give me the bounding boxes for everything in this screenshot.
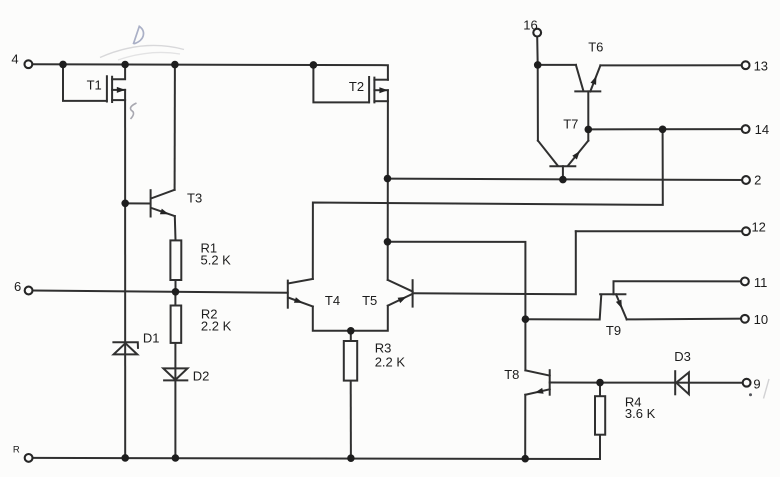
wire node 16 to T6 collector diagonal [538, 64, 576, 66]
terminal pin 6 [25, 287, 33, 295]
transistor T5 collector diagonal [388, 280, 413, 292]
diode D1 (zener) anode triangle pointing up [114, 343, 138, 354]
wire T6 base down to pin 14 node [587, 91, 589, 129]
node T8 base / R4 / D3 [596, 379, 604, 387]
transistor T8 collector diagonal [525, 370, 549, 375]
pencil mark S squiggle [130, 103, 136, 119]
svg-text:16: 16 [523, 17, 537, 32]
transistor T7 emitter diagonal [568, 141, 588, 166]
wire T5 emitter down to common node [351, 306, 388, 331]
node T9 base tee [522, 315, 530, 323]
wire pin 12 line [576, 230, 746, 232]
node top rail / T2 gate [310, 61, 318, 69]
node R1/R2 input rail [172, 288, 180, 296]
wire T1 source/bulk vertical down to D1 and bottom rail [124, 90, 126, 458]
transistor T7 emitter arrowhead [572, 151, 580, 160]
wire T4 emitter down to common node [313, 307, 351, 331]
transistor T8 emitter arrowhead [535, 388, 544, 394]
wire T1 gate loop to top rail [63, 64, 107, 101]
node top rail / T1 drain [121, 61, 129, 69]
wire T3 base from node [125, 202, 150, 204]
node bottom rail / R3 [347, 454, 355, 462]
diode D3 anode triangle pointing left [676, 372, 689, 394]
wire R4 bottom to bottom rail [599, 435, 601, 459]
node bottom rail / D1 [121, 454, 129, 462]
diode D2 anode triangle pointing down [163, 368, 187, 380]
transistor T6 emitter arrowhead [591, 76, 597, 85]
transistor T1 (MOSFET) gate and channel bars [107, 76, 112, 102]
svg-text:D1: D1 [143, 330, 160, 345]
wire top supply rail from pin 4 to T2 drain corner [33, 64, 388, 80]
transistor T7 base bar [550, 165, 575, 167]
node top rail / T1 gate [59, 61, 67, 69]
wire R3 bottom to bottom rail [350, 381, 352, 458]
diode D1 (zener) cathode bar with hook [112, 342, 138, 349]
wire R3 top from common emitter node [350, 331, 352, 341]
svg-text:13: 13 [754, 58, 768, 73]
svg-text:R: R [13, 444, 20, 455]
wire T1 drain stub to top rail [112, 64, 125, 79]
svg-text:T6: T6 [588, 39, 603, 54]
svg-text:2.2 K: 2.2 K [375, 355, 406, 370]
wire pin 14 line [588, 128, 745, 130]
transistor T5 emitter arrowhead [398, 297, 407, 303]
wire T2 bulk stub [374, 89, 388, 91]
transistor T6 base bar [575, 90, 600, 92]
wire bottom rail from pin R to R4 bottom [33, 458, 600, 459]
svg-text:9: 9 [753, 376, 760, 391]
wire T3 collector up to top rail [174, 65, 176, 190]
svg-text:6: 6 [14, 279, 21, 294]
terminal pin 2 [742, 176, 750, 184]
terminal pin 4 [25, 60, 33, 68]
svg-text:4: 4 [11, 51, 18, 66]
wire T9 collector to pin 11 [614, 281, 745, 294]
node T2 source / pin 2 line [384, 175, 392, 183]
svg-text:T7: T7 [563, 117, 578, 132]
node T6 base / T7 emitter / pin 14 [585, 126, 593, 134]
svg-text:2.2 K: 2.2 K [201, 319, 232, 334]
svg-text:T2: T2 [349, 79, 364, 94]
transistor T9 base bar [600, 293, 625, 295]
wire R4 top [599, 383, 601, 397]
transistor T3 collector diagonal [151, 190, 174, 199]
wire R2 top [174, 292, 176, 306]
wire T7 base down to pin 2 line [562, 166, 564, 179]
svg-text:5.2 K: 5.2 K [201, 253, 232, 268]
diode D2 cathode bar [163, 379, 188, 381]
svg-text:11: 11 [754, 275, 768, 290]
wire T9 emitter to pin 10 [627, 318, 745, 321]
svg-text:12: 12 [751, 219, 765, 234]
svg-text:T4: T4 [325, 293, 340, 308]
wire T8 base to output node [550, 382, 600, 384]
transistor T1 bulk arrowhead [117, 87, 126, 93]
wire T9 base line [525, 294, 601, 319]
svg-text:D3: D3 [674, 349, 691, 364]
resistor R2 body [171, 306, 182, 343]
svg-text:T8: T8 [504, 367, 519, 382]
wire T5 base to pin 12 riser [413, 231, 576, 294]
transistor T8 emitter diagonal [525, 389, 549, 395]
transistor T4 emitter arrowhead [294, 297, 303, 303]
transistor T6 emitter diagonal [590, 65, 600, 91]
resistor R1 body [170, 240, 181, 280]
transistor T9 emitter arrowhead [616, 300, 622, 309]
diode D3 cathode bar [674, 370, 676, 395]
transistor T8 base bar [549, 370, 551, 395]
resistor R4 body [595, 396, 605, 435]
transistor T6 collector diagonal [576, 65, 583, 90]
terminal pin 12 [742, 227, 750, 235]
node bottom rail / D2 [172, 454, 180, 462]
pencil mark faint lower arc [118, 52, 180, 60]
transistor T7 collector diagonal [538, 141, 558, 166]
transistor T4 emitter diagonal [288, 298, 313, 307]
terminal pin 16 [533, 29, 541, 37]
node T3 base [121, 200, 129, 208]
transistor T4 collector diagonal [288, 279, 313, 284]
pencil mark faint arc [100, 45, 184, 57]
transistor T3 base bar [150, 190, 152, 216]
wire T1 bulk stub [112, 89, 125, 91]
terminal pin 8 bottom [25, 454, 33, 462]
wire input rail from pin 6 to T4 base [33, 291, 288, 293]
wire T6 emitter to pin 13 line [600, 64, 745, 66]
wire drive line from T2 source node down to T8 collector [388, 242, 526, 370]
svg-text:T3: T3 [187, 191, 202, 206]
wire T3 emitter to R1 [174, 216, 177, 240]
pencil mark speck near pin 9 [749, 393, 752, 396]
terminal pin 9 [743, 379, 751, 387]
terminal pin 13 [742, 61, 750, 69]
svg-text:T1: T1 [87, 77, 102, 92]
pencil mark D shape [133, 26, 143, 44]
node bottom rail / T8 emitter [521, 455, 529, 463]
wire pin 2 line from T2 source node [388, 179, 747, 180]
node pin 14 line / T4 collector loop [659, 126, 667, 134]
wire R1 bottom to input rail [175, 280, 177, 292]
wire T1 source stub [112, 99, 125, 101]
node pin16 / T6 collector [534, 61, 542, 69]
transistor T2 bulk arrowhead [379, 87, 388, 93]
wire T8 emitter down to bottom rail [524, 395, 526, 458]
node T2 source / drive line [384, 238, 392, 246]
pencil mark faint slash right of pin 9 [764, 379, 770, 399]
node common emitters T4 T5 [347, 327, 355, 335]
svg-text:10: 10 [754, 312, 768, 327]
svg-text:T9: T9 [606, 323, 621, 338]
resistor R3 body [344, 341, 357, 381]
terminal pin 11 [741, 278, 749, 286]
wire T2 gate loop to top rail [313, 65, 368, 103]
transistor T5 base bar [412, 280, 414, 306]
transistor T4 base bar [287, 281, 289, 308]
transistor T5 emitter diagonal [388, 294, 413, 306]
node T7 base on pin 2 line [559, 176, 567, 184]
terminal pin 14 [742, 125, 750, 133]
wire pin 16 down to node [536, 37, 539, 141]
svg-text:14: 14 [755, 122, 769, 137]
node top rail / T3 collector [171, 61, 179, 69]
wire T2 drain stub [374, 79, 388, 81]
transistor T9 emitter diagonal [616, 294, 627, 319]
wire T2 source stub [374, 100, 388, 102]
wire T7 emitter up to pin 14 node [587, 129, 589, 140]
wire R2 bottom through D2 to bottom rail [174, 343, 176, 458]
transistor T3 emitter arrowhead [160, 209, 169, 215]
wire output node through D3 to pin 9 [600, 382, 747, 384]
svg-text:D2: D2 [193, 368, 210, 383]
svg-text:T5: T5 [362, 293, 377, 308]
svg-text:2: 2 [754, 173, 761, 188]
terminal pin 10 [741, 315, 749, 323]
wire T4 collector vertical and loop over to pin-14 net [313, 129, 663, 279]
transistor T2 (MOSFET) gate and channel bars [369, 77, 374, 102]
wire T2 source vertical down to T5 collector [387, 90, 389, 280]
transistor T3 emitter diagonal [151, 208, 175, 216]
svg-text:R3: R3 [375, 341, 392, 356]
svg-text:3.6 K: 3.6 K [625, 406, 656, 421]
